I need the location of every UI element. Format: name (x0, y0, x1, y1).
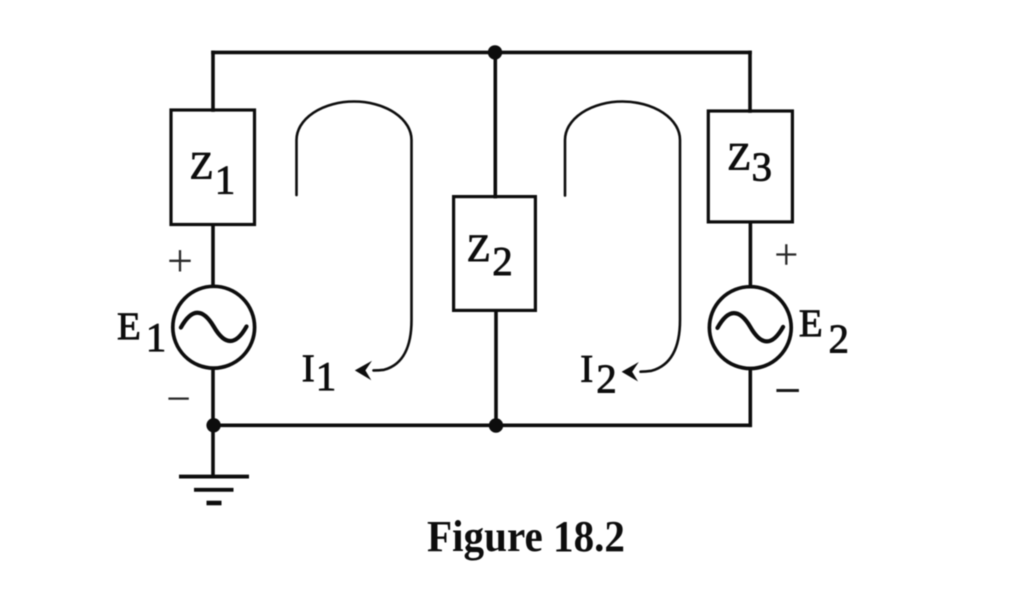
svg-text:Z: Z (190, 144, 214, 187)
svg-text:Figure 18.2: Figure 18.2 (427, 511, 625, 561)
svg-text:I: I (580, 348, 593, 391)
svg-text:E: E (117, 305, 141, 348)
svg-text:I: I (302, 347, 315, 390)
svg-text:2: 2 (492, 238, 513, 284)
svg-text:Z: Z (727, 135, 751, 178)
svg-text:2: 2 (829, 316, 850, 362)
svg-text:1: 1 (316, 353, 337, 399)
svg-text:1: 1 (215, 157, 236, 203)
svg-text:E: E (799, 302, 823, 345)
svg-text:Z: Z (467, 227, 491, 270)
svg-text:3: 3 (752, 144, 773, 190)
svg-text:2: 2 (596, 356, 617, 402)
svg-text:1: 1 (146, 314, 167, 360)
